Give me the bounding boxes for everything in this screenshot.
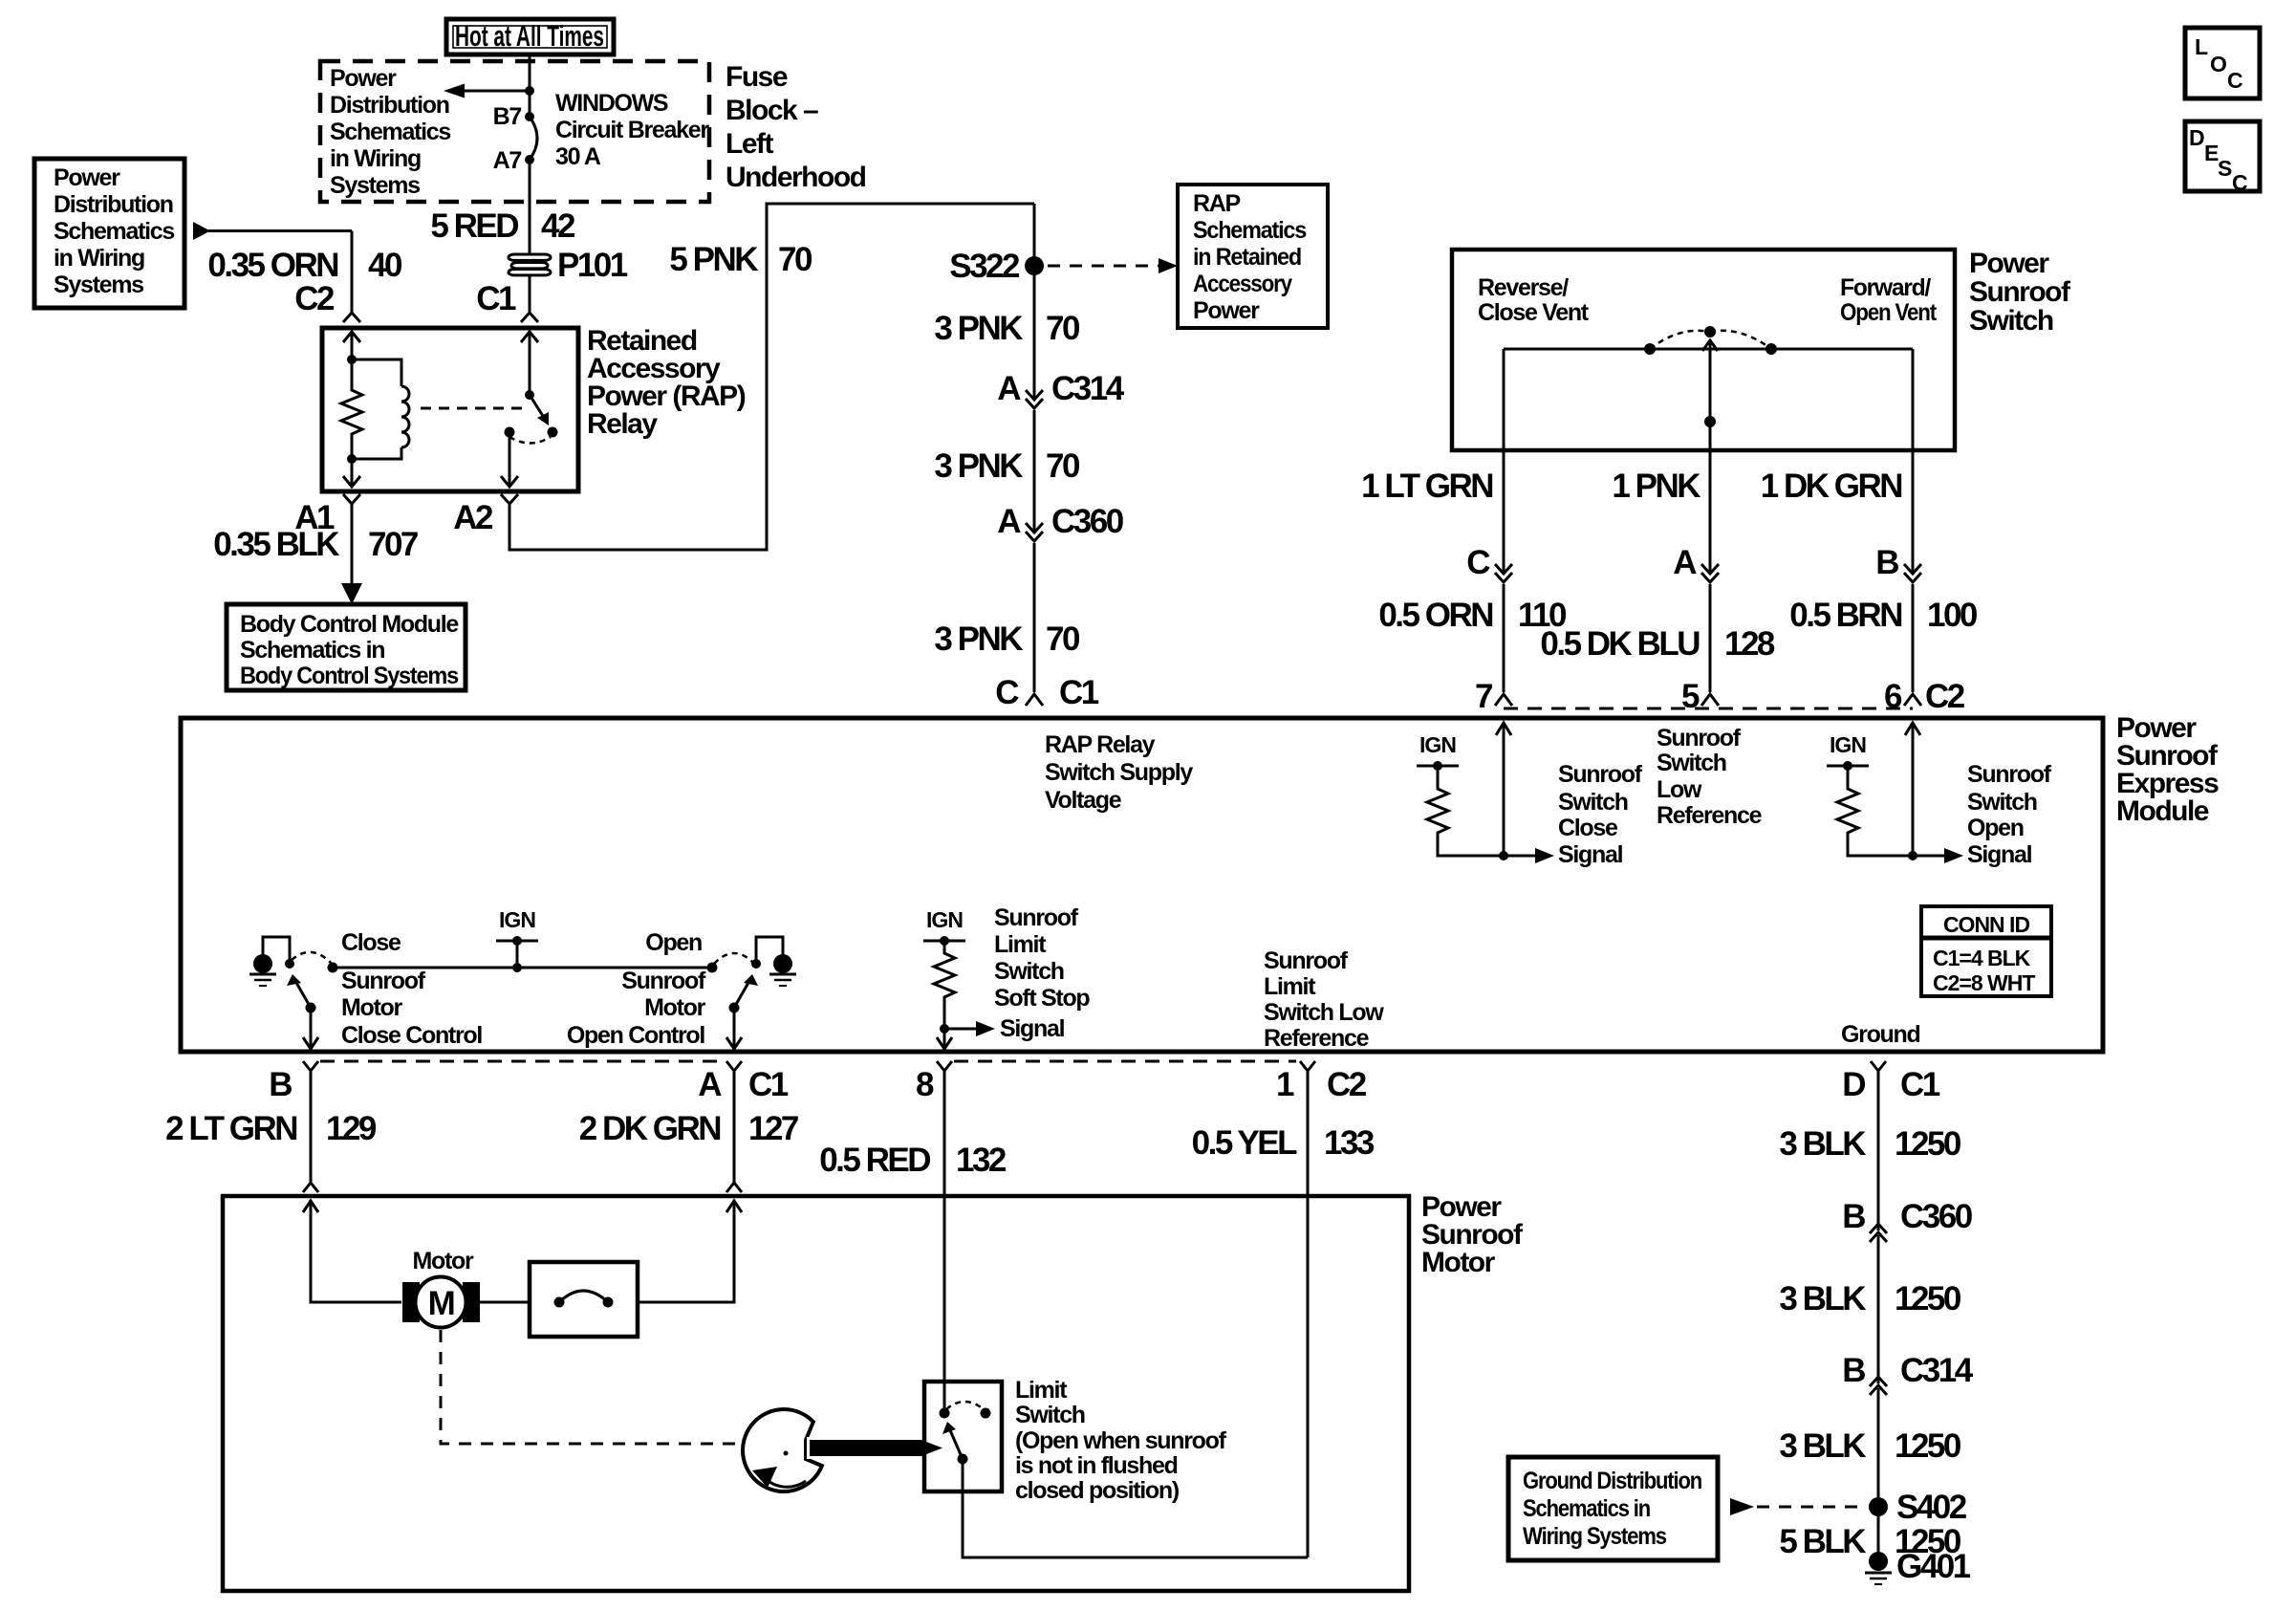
wire: switch pin C down xyxy=(1503,349,1505,574)
svg-text:Forward/: Forward/ xyxy=(1840,274,1931,301)
svg-text:Wiring Systems: Wiring Systems xyxy=(1523,1523,1666,1550)
connector Y at module pin 6 xyxy=(1904,694,1921,706)
svg-text:70: 70 xyxy=(1046,310,1080,347)
svg-text:0.5 BRN: 0.5 BRN xyxy=(1789,597,1901,634)
dashed connector line C2 at module bottom xyxy=(954,1060,1296,1063)
brush switch box xyxy=(530,1262,638,1337)
svg-text:A: A xyxy=(997,370,1021,407)
wire: 5 RED 42 from breaker to P101 xyxy=(529,160,531,254)
ground symbol (close control driver) xyxy=(249,954,276,986)
label: 3 PNK | 70 (first) xyxy=(934,310,1080,347)
svg-text:A2: A2 xyxy=(453,499,493,536)
svg-text:is not in flushed: is not in flushed xyxy=(1015,1452,1178,1479)
label: Sunroof Motor Open Control xyxy=(567,968,706,1049)
svg-text:Switch Supply: Switch Supply xyxy=(1045,759,1193,786)
hook wire: open driver common to ground xyxy=(751,937,783,969)
svg-text:Limit: Limit xyxy=(1264,973,1316,1000)
svg-text:C2: C2 xyxy=(1327,1066,1367,1103)
wire: 0.35 ORN 40 down to relay C2 xyxy=(351,231,354,313)
wire: switch pin A down xyxy=(1709,422,1712,574)
dashed travel arc (open driver) xyxy=(714,953,754,964)
svg-text:Module: Module xyxy=(2116,795,2209,827)
resistor (open signal) xyxy=(1837,766,1917,860)
label: D | C1 xyxy=(1842,1066,1940,1103)
svg-text:C360: C360 xyxy=(1900,1198,1973,1235)
label: Sunroof Limit Switch Low Reference xyxy=(1264,947,1384,1052)
splice S402 xyxy=(1869,1497,1888,1516)
svg-text:Fuse: Fuse xyxy=(726,61,788,93)
label: B | C314 xyxy=(1842,1352,1973,1389)
label: A | C314 xyxy=(997,370,1124,407)
svg-text:Soft Stop: Soft Stop xyxy=(994,985,1090,1012)
relay box: Retained Accessory Power (RAP) Relay xyxy=(322,328,578,491)
connector Y at module pin 8 (bottom) xyxy=(937,1061,952,1413)
dashed link: coil to switch xyxy=(421,407,524,410)
inline connector at switch pin C xyxy=(1495,564,1512,692)
svg-text:Sunroof: Sunroof xyxy=(1657,725,1742,751)
connector Y at module pin 5 xyxy=(1701,694,1719,706)
inline connector B / C314 xyxy=(1870,1377,1887,1569)
svg-text:G401: G401 xyxy=(1896,1548,1971,1585)
connector Y at module pin 1 (bottom) xyxy=(1300,1061,1315,1557)
wire: P101 to relay C1 xyxy=(529,275,531,312)
svg-text:Left: Left xyxy=(726,128,774,160)
title: Power Sunroof Motor xyxy=(1421,1191,1524,1278)
off-page arrow from Power Distribution box xyxy=(193,222,352,240)
svg-text:L: L xyxy=(2195,34,2208,59)
wire: limit switch to pin 1 riser xyxy=(963,1459,1308,1557)
dashed arrow: ground distribution reference to S402 xyxy=(1730,1498,1864,1515)
label: 5 BLK | 1250 xyxy=(1779,1523,1961,1560)
svg-text:Schematics: Schematics xyxy=(330,119,450,145)
svg-text:Low: Low xyxy=(1657,776,1702,803)
svg-text:IGN: IGN xyxy=(926,907,963,932)
svg-text:Reverse/: Reverse/ xyxy=(1478,274,1569,301)
svg-text:Motor: Motor xyxy=(644,994,705,1021)
dashed connector line C2 at module top xyxy=(1504,708,1913,710)
label: A | C1 xyxy=(698,1066,789,1103)
label: 3 PNK | 70 (second) xyxy=(934,447,1080,485)
connector Y at module pin D (bottom) xyxy=(1871,1061,1886,1230)
svg-text:Power: Power xyxy=(1969,248,2049,279)
inline connector at switch pin B xyxy=(1904,564,1921,692)
svg-text:127: 127 xyxy=(748,1110,798,1147)
svg-text:Ground Distribution: Ground Distribution xyxy=(1523,1468,1701,1494)
svg-text:IGN: IGN xyxy=(1419,732,1456,757)
svg-text:1250: 1250 xyxy=(1895,1280,1961,1317)
close/open bus line inside module xyxy=(333,967,712,969)
svg-text:Voltage: Voltage xyxy=(1045,787,1122,814)
svg-text:Schematics in: Schematics in xyxy=(240,637,384,664)
svg-text:Relay: Relay xyxy=(587,408,658,440)
wire: motor to brush switch xyxy=(480,1301,530,1304)
cam (rotary drive) xyxy=(743,1409,822,1491)
svg-text:Reference: Reference xyxy=(1657,802,1763,829)
reference box: Body Control Module Schematics xyxy=(227,604,466,690)
svg-text:C1=4 BLK: C1=4 BLK xyxy=(1933,946,2031,970)
CONN ID table xyxy=(1921,906,2051,996)
grommet P101 xyxy=(509,254,551,275)
arrow: Sunroof Switch Open Signal xyxy=(1913,848,1963,863)
sunroof switch box: Power Sunroof Switch xyxy=(1452,250,1955,450)
svg-text:S402: S402 xyxy=(1896,1489,1967,1526)
svg-text:Distribution: Distribution xyxy=(54,191,173,218)
svg-text:30 A: 30 A xyxy=(555,143,601,170)
module box: Power Sunroof Express Module xyxy=(181,718,2103,1052)
svg-text:in Wiring: in Wiring xyxy=(330,145,421,172)
svg-text:C1: C1 xyxy=(1059,674,1099,711)
svg-text:2 LT GRN: 2 LT GRN xyxy=(165,1110,296,1147)
label: Sunroof Switch Low Reference xyxy=(1657,725,1763,829)
connector Y at relay pin A1 xyxy=(343,494,360,585)
svg-text:70: 70 xyxy=(1046,620,1080,658)
reference box: Power Distribution Schematics in Wiring Systems (left) xyxy=(34,159,184,308)
relay switch arm with arrowhead xyxy=(505,395,558,444)
arrow: feed to other circuits (left) xyxy=(444,84,534,98)
module input arrow at pin 7 xyxy=(1496,722,1511,856)
svg-text:40: 40 xyxy=(368,247,402,284)
svg-text:Sunroof: Sunroof xyxy=(994,904,1079,931)
svg-text:1 LT GRN: 1 LT GRN xyxy=(1361,468,1492,505)
svg-text:S: S xyxy=(2218,156,2232,181)
IGN tee (motor drive) xyxy=(496,936,538,972)
svg-text:closed position): closed position) xyxy=(1015,1477,1180,1504)
svg-text:Open: Open xyxy=(645,929,702,956)
svg-text:Body Control Module: Body Control Module xyxy=(240,611,459,638)
svg-text:CONN ID: CONN ID xyxy=(1943,912,2030,937)
svg-text:8: 8 xyxy=(916,1066,934,1103)
svg-text:(Open when sunroof: (Open when sunroof xyxy=(1015,1427,1227,1454)
svg-text:Close Control: Close Control xyxy=(341,1022,482,1049)
reference box: Ground Distribution Schematics in Wiring Systems xyxy=(1508,1457,1718,1560)
svg-text:0.5 ORN: 0.5 ORN xyxy=(1378,597,1492,634)
label: RAP Relay Switch Supply Voltage xyxy=(1045,731,1193,814)
wire: close control to module pin B xyxy=(303,1008,318,1049)
label: 0.5 RED | 132 xyxy=(819,1142,1007,1179)
svg-text:Accessory: Accessory xyxy=(1193,271,1292,297)
label: Sunroof Limit Switch Soft Stop Signal xyxy=(994,904,1090,1042)
svg-text:70: 70 xyxy=(1046,447,1080,485)
svg-text:P101: P101 xyxy=(557,247,628,284)
svg-text:C: C xyxy=(995,674,1019,711)
motor feed wire B (inside motor box) xyxy=(303,1200,401,1302)
svg-text:C314: C314 xyxy=(1051,370,1125,407)
svg-text:C360: C360 xyxy=(1051,503,1124,540)
svg-text:C1: C1 xyxy=(748,1066,789,1103)
svg-text:1250: 1250 xyxy=(1895,1125,1961,1163)
label: 3 PNK | 70 (third) xyxy=(934,620,1080,658)
label: Limit Switch (Open when sunroof is not in flushed closed position) xyxy=(1015,1377,1227,1504)
label: 3 BLK | 1250 (second) xyxy=(1779,1280,1961,1317)
svg-text:0.35 BLK: 0.35 BLK xyxy=(213,526,339,563)
svg-text:Sunroof: Sunroof xyxy=(1967,761,2052,788)
svg-text:Limit: Limit xyxy=(994,931,1047,958)
motor box: Power Sunroof Motor xyxy=(223,1196,1409,1591)
connector Y at relay pin C2 xyxy=(343,313,360,322)
svg-text:3 PNK: 3 PNK xyxy=(934,310,1023,347)
module input arrow at pin 6 xyxy=(1905,722,1920,856)
dashed box: Fuse Block - Left Underhood xyxy=(320,61,709,202)
arrow into Body Control Module box xyxy=(341,583,362,604)
svg-text:Close Vent: Close Vent xyxy=(1478,299,1590,326)
IGN tee (soft stop pull-up) xyxy=(923,936,965,946)
svg-text:3 PNK: 3 PNK xyxy=(934,447,1023,485)
svg-text:Switch: Switch xyxy=(994,958,1064,985)
box: Hot at All Times xyxy=(446,19,614,54)
svg-text:S322: S322 xyxy=(949,248,1020,285)
label: WINDOWS Circuit Breaker 30 A xyxy=(555,90,709,170)
arrow: Sunroof Switch Close Signal xyxy=(1504,848,1554,863)
connector Y above motor box (B) xyxy=(303,1183,318,1192)
circuit breaker: WINDOWS 30 A between B7 and A7 xyxy=(525,112,537,164)
limit switch contacts xyxy=(940,1402,991,1465)
svg-text:Sunroof: Sunroof xyxy=(1558,761,1643,788)
inline connector B / C360 xyxy=(1870,1224,1887,1383)
label: Sunroof Switch Close Signal xyxy=(1558,761,1643,868)
svg-text:707: 707 xyxy=(368,526,418,563)
svg-text:Signal: Signal xyxy=(1000,1015,1065,1042)
IGN tee (open signal pull-up) xyxy=(1827,761,1869,771)
label: 0.5 DK BLU | 128 xyxy=(1540,625,1775,663)
svg-text:C2: C2 xyxy=(294,280,335,317)
svg-text:in Wiring: in Wiring xyxy=(54,245,144,272)
svg-text:D: D xyxy=(1842,1066,1865,1103)
svg-text:42: 42 xyxy=(541,207,575,245)
svg-text:O: O xyxy=(2210,52,2226,76)
svg-text:Sunroof: Sunroof xyxy=(341,968,426,994)
svg-text:RAP: RAP xyxy=(1193,190,1241,217)
svg-text:7: 7 xyxy=(1475,678,1492,715)
svg-text:Close: Close xyxy=(1558,815,1618,841)
svg-text:WINDOWS: WINDOWS xyxy=(555,90,668,117)
reference box: RAP Schematics in Retained Accessory Power xyxy=(1178,185,1328,328)
arrow at motor box top (A riser) xyxy=(726,1201,742,1212)
resistor (close signal) xyxy=(1427,766,1508,860)
relay coil branch (left): wire with arrows xyxy=(343,331,360,487)
label: A | C360 xyxy=(997,503,1123,540)
svg-text:Switch: Switch xyxy=(1015,1402,1085,1428)
connector Y above motor box (A) xyxy=(726,1183,742,1192)
svg-text:3 PNK: 3 PNK xyxy=(934,620,1023,658)
svg-text:3 BLK: 3 BLK xyxy=(1779,1427,1866,1465)
svg-text:IGN: IGN xyxy=(499,907,535,932)
relay output wire A2 (inside box) xyxy=(501,432,518,487)
relay switch: common from C1 xyxy=(521,331,538,400)
svg-text:1: 1 xyxy=(1276,1066,1294,1103)
svg-text:Sunroof: Sunroof xyxy=(621,968,706,994)
svg-text:0.5 YEL: 0.5 YEL xyxy=(1192,1124,1297,1162)
limit switch box xyxy=(924,1382,1002,1491)
motor M symbol xyxy=(402,1277,480,1328)
svg-text:Switch Low: Switch Low xyxy=(1264,999,1384,1026)
svg-text:A7: A7 xyxy=(493,147,522,174)
svg-text:Switch: Switch xyxy=(1969,305,2053,337)
label: 5 RED | 42 xyxy=(430,207,575,245)
svg-text:Open Vent: Open Vent xyxy=(1840,299,1938,326)
ground G401 xyxy=(1865,1552,1892,1584)
svg-text:M: M xyxy=(428,1285,454,1322)
svg-text:Sunroof: Sunroof xyxy=(1264,947,1349,974)
label: 5 PNK | 70 xyxy=(669,241,812,278)
svg-text:Underhood: Underhood xyxy=(726,162,866,193)
svg-text:Distribution: Distribution xyxy=(330,92,449,119)
svg-text:0.5 RED: 0.5 RED xyxy=(819,1142,930,1179)
svg-text:133: 133 xyxy=(1324,1124,1375,1162)
title: Fuse Block - Left Underhood xyxy=(726,61,866,193)
label: Sunroof Switch Open Signal xyxy=(1967,761,2052,868)
svg-text:1250: 1250 xyxy=(1895,1427,1961,1465)
title: Power Sunroof Express Module xyxy=(2116,712,2219,827)
label: Reverse/ Close Vent xyxy=(1478,274,1590,326)
svg-text:A: A xyxy=(698,1066,722,1103)
title: Retained Accessory Power (RAP) Relay xyxy=(587,325,746,440)
svg-text:E: E xyxy=(2204,141,2219,165)
svg-text:129: 129 xyxy=(326,1110,377,1147)
inline connector at switch pin A xyxy=(1701,564,1719,692)
connector Y at relay pin A2 xyxy=(501,494,518,504)
label: 2 LT GRN | 129 xyxy=(165,1110,377,1147)
text inside fuse block: Power Distribution Schematics in Wiring Systems xyxy=(330,65,450,199)
svg-text:Open: Open xyxy=(1967,815,2024,841)
resistor (soft stop) xyxy=(934,941,955,1048)
svg-text:Schematics: Schematics xyxy=(54,218,174,245)
svg-text:B7: B7 xyxy=(493,103,522,130)
svg-text:C2: C2 xyxy=(1925,678,1965,715)
dashed mechanical link: motor to cam xyxy=(441,1330,742,1444)
svg-text:C1: C1 xyxy=(1900,1066,1940,1103)
svg-text:70: 70 xyxy=(778,241,812,278)
svg-text:B: B xyxy=(1842,1352,1865,1389)
label: 0.5 BRN | 100 xyxy=(1789,597,1978,634)
label: C | C1 (module connector) xyxy=(995,674,1099,711)
wire: hot feed down from Hot at All Times xyxy=(529,54,531,117)
wire: open control to module pin A xyxy=(726,1008,742,1049)
connector Y at module pin 7 xyxy=(1495,694,1512,706)
connector Y at module pin B (bottom) xyxy=(303,1061,318,1183)
dashed arrow: S322 to RAP Schematics box xyxy=(1048,258,1178,273)
label: 1 | C2 xyxy=(1276,1066,1367,1103)
open control switch arm xyxy=(729,974,759,1013)
label: 3 BLK | 1250 (third) xyxy=(1779,1427,1961,1465)
label: 3 BLK | 1250 (first) xyxy=(1779,1125,1961,1163)
label: 0.35 ORN | 40 xyxy=(207,247,402,284)
wire: A2 output routed to 5 PNK riser xyxy=(509,204,1034,550)
svg-text:D: D xyxy=(2189,125,2204,150)
label: 2 DK GRN | 127 xyxy=(579,1110,798,1147)
label: 0.35 BLK | 707 xyxy=(213,526,418,563)
wire: switch pin B down xyxy=(1912,349,1915,574)
dashed travel arc (close driver) xyxy=(292,952,332,964)
svg-text:2 DK GRN: 2 DK GRN xyxy=(579,1110,720,1147)
ground symbol (open control driver) xyxy=(769,954,796,986)
svg-text:0.5 DK BLU: 0.5 DK BLU xyxy=(1540,625,1700,663)
splice S322 xyxy=(1025,204,1044,399)
sunroof switch contacts and wiper xyxy=(1504,326,1913,427)
open control contact xyxy=(707,963,718,973)
svg-text:132: 132 xyxy=(956,1142,1007,1179)
svg-text:Close: Close xyxy=(341,929,401,956)
cam follower bar xyxy=(810,1440,942,1456)
label: 0.5 YEL | 133 xyxy=(1192,1124,1375,1162)
svg-text:C2=8 WHT: C2=8 WHT xyxy=(1933,970,2035,995)
svg-text:Motor: Motor xyxy=(413,1248,474,1274)
svg-text:Power: Power xyxy=(54,164,120,191)
svg-text:Systems: Systems xyxy=(54,272,143,298)
svg-text:Reference: Reference xyxy=(1264,1025,1370,1052)
svg-text:C314: C314 xyxy=(1900,1352,1974,1389)
svg-text:A: A xyxy=(997,503,1021,540)
svg-text:A: A xyxy=(1673,544,1697,581)
svg-text:128: 128 xyxy=(1724,625,1775,663)
wire: brush switch to pin A riser xyxy=(638,1200,734,1302)
label: B | C360 xyxy=(1842,1198,1972,1235)
svg-text:100: 100 xyxy=(1927,597,1978,634)
label: 6 | C2 xyxy=(1884,678,1965,715)
svg-text:Motor: Motor xyxy=(341,994,402,1021)
svg-text:5 BLK: 5 BLK xyxy=(1779,1523,1866,1560)
LOC box xyxy=(2185,28,2260,98)
svg-text:C: C xyxy=(1466,544,1490,581)
svg-text:1 DK GRN: 1 DK GRN xyxy=(1761,468,1901,505)
IGN tee (close signal pull-up) xyxy=(1417,761,1459,771)
svg-text:in Retained: in Retained xyxy=(1193,244,1301,271)
svg-text:5 RED: 5 RED xyxy=(430,207,518,245)
connector Y at relay pin C1 xyxy=(521,313,538,322)
inline connector A / C360 xyxy=(1026,523,1043,692)
svg-text:Power: Power xyxy=(1193,297,1260,324)
svg-text:B: B xyxy=(1875,544,1898,581)
svg-text:Signal: Signal xyxy=(1558,841,1623,868)
svg-text:Switch: Switch xyxy=(1558,789,1628,816)
dashed connector line C1 at module bottom xyxy=(320,1060,725,1063)
resistor in relay xyxy=(341,387,362,437)
connector Y at module pin A (bottom) xyxy=(726,1061,742,1183)
svg-text:Switch: Switch xyxy=(1657,750,1726,776)
svg-text:5 PNK: 5 PNK xyxy=(669,241,758,278)
DESC box xyxy=(2185,121,2260,195)
svg-text:Limit: Limit xyxy=(1015,1377,1068,1404)
connector Y at module pin C xyxy=(1026,694,1043,706)
label: Forward/ Open Vent xyxy=(1840,274,1938,326)
svg-text:RAP Relay: RAP Relay xyxy=(1045,731,1156,758)
svg-text:B: B xyxy=(1842,1198,1865,1235)
svg-text:3 BLK: 3 BLK xyxy=(1779,1280,1866,1317)
close control switch arm xyxy=(287,963,338,1013)
title: Power Sunroof Switch xyxy=(1969,248,2071,337)
svg-text:B: B xyxy=(269,1066,292,1103)
label: 0.5 ORN | 110 xyxy=(1378,597,1567,634)
svg-text:Block –: Block – xyxy=(726,95,818,126)
svg-text:Signal: Signal xyxy=(1967,841,2032,868)
svg-text:Systems: Systems xyxy=(330,172,420,199)
svg-text:Open Control: Open Control xyxy=(567,1022,704,1049)
svg-text:Hot at All Times: Hot at All Times xyxy=(455,19,604,53)
svg-text:Circuit Breaker: Circuit Breaker xyxy=(555,117,709,143)
svg-text:C1: C1 xyxy=(476,280,516,317)
svg-text:0.35 ORN: 0.35 ORN xyxy=(207,247,337,284)
svg-text:Switch: Switch xyxy=(1967,789,2037,816)
svg-text:1 PNK: 1 PNK xyxy=(1612,468,1700,505)
svg-text:Schematics: Schematics xyxy=(1193,217,1306,244)
svg-text:3 BLK: 3 BLK xyxy=(1779,1125,1866,1163)
svg-text:Power: Power xyxy=(330,65,397,92)
svg-text:Ground: Ground xyxy=(1841,1021,1919,1048)
label: Sunroof Motor Close Control xyxy=(341,968,482,1049)
svg-text:Sunroof: Sunroof xyxy=(1969,276,2071,308)
svg-text:Body Control Systems: Body Control Systems xyxy=(240,663,458,689)
svg-text:C: C xyxy=(2232,170,2247,195)
inline connector A / C314 xyxy=(1026,390,1043,532)
